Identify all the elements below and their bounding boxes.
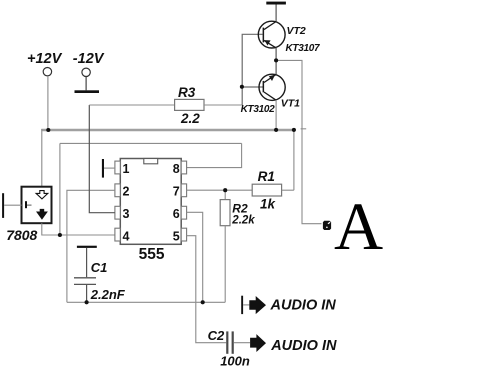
- wire -12V to ground: [85, 77, 87, 91]
- junction dots (drawn last): [46, 58, 296, 304]
- wire 7808 output to pin 4: [42, 223, 115, 235]
- svg-text:1: 1: [123, 162, 130, 176]
- svg-text:KT3102: KT3102: [241, 104, 276, 115]
- pin 6 box: [181, 206, 186, 219]
- svg-text:AUDIO IN: AUDIO IN: [270, 298, 337, 314]
- wire pin 2 down to bottom net: [67, 190, 115, 302]
- svg-text:R1: R1: [258, 169, 275, 184]
- wire VT1 base: [242, 86, 263, 88]
- wire VT2 emitter to VT1 collector: [275, 48, 277, 74]
- svg-text:6: 6: [173, 207, 180, 221]
- audio input arrow 2: [250, 334, 266, 352]
- svg-text:VT1: VT1: [281, 97, 300, 109]
- wire VT1 emitter down to rail: [275, 100, 277, 130]
- negative supply bar: [266, 2, 286, 22]
- pin 2 box: [115, 184, 120, 197]
- svg-text:100n: 100n: [220, 354, 250, 368]
- pin 4 box: [115, 228, 120, 241]
- svg-text:7808: 7808: [6, 227, 37, 243]
- svg-text:1k: 1k: [260, 197, 277, 212]
- output terminal: [323, 221, 331, 230]
- audio input arrow 1: [249, 296, 266, 314]
- wire Vcc branch up: [59, 143, 61, 235]
- audio input terminal bar (top): [241, 296, 249, 314]
- voltage regulator 7808: [6, 187, 51, 243]
- wire base bus vertical: [242, 34, 262, 105]
- svg-text:3: 3: [123, 207, 130, 221]
- pin 1 terminal bar: [102, 159, 115, 178]
- svg-text:2.2nF: 2.2nF: [90, 287, 126, 302]
- svg-text:C2: C2: [208, 328, 225, 343]
- svg-text:R3: R3: [178, 85, 196, 100]
- pin 8 box: [181, 161, 186, 174]
- bottom net wire: [67, 301, 225, 303]
- svg-text:2.2k: 2.2k: [231, 214, 255, 226]
- pin 3 box: [115, 206, 120, 219]
- capacitor C1: [74, 246, 126, 303]
- svg-text:VT2: VT2: [287, 25, 306, 37]
- svg-text:4: 4: [123, 229, 130, 243]
- resistor R1: [187, 130, 294, 212]
- svg-text:5: 5: [173, 229, 180, 243]
- -12V terminal: [73, 51, 105, 76]
- ground bar: [75, 90, 100, 93]
- svg-text:A: A: [334, 188, 383, 264]
- pin 1 box: [115, 161, 120, 174]
- svg-text:+12V: +12V: [27, 51, 63, 67]
- resistor R3: [89, 85, 242, 126]
- pin 5 box: [181, 228, 186, 241]
- wire loop down to pin 8: [187, 143, 242, 167]
- wire pin 5 down to C2: [187, 236, 227, 343]
- transistor VT1 KT3102: [241, 74, 301, 115]
- input terminal bar at 7808: [2, 193, 21, 218]
- svg-text:8: 8: [173, 162, 180, 176]
- pin 7 box: [181, 184, 186, 197]
- svg-text:-12V: -12V: [73, 51, 105, 67]
- wire Vcc loop top: [60, 142, 242, 144]
- wire +12V down to rail: [47, 76, 49, 130]
- timer IC 555: [115, 159, 187, 263]
- svg-text:2: 2: [123, 184, 130, 198]
- svg-text:C1: C1: [91, 260, 108, 275]
- +12V terminal: [27, 51, 63, 76]
- wire rail down to 7808 input: [41, 129, 43, 187]
- wire output branch to terminal: [276, 60, 321, 223]
- svg-text:AUDIO IN: AUDIO IN: [270, 338, 337, 354]
- wire pin 6 down to bottom net: [187, 212, 203, 302]
- tick near rail end: [301, 128, 307, 130]
- svg-text:555: 555: [139, 246, 165, 263]
- +12V rail wire: [41, 129, 294, 132]
- svg-text:2.2: 2.2: [180, 111, 200, 126]
- svg-text:7: 7: [173, 184, 180, 198]
- transistor VT2 KT3107: [258, 21, 320, 54]
- svg-text:KT3107: KT3107: [286, 43, 321, 54]
- wire R3 down to pin 3: [89, 105, 115, 213]
- resistor R2: [220, 190, 255, 302]
- capacitor C2: [208, 328, 251, 368]
